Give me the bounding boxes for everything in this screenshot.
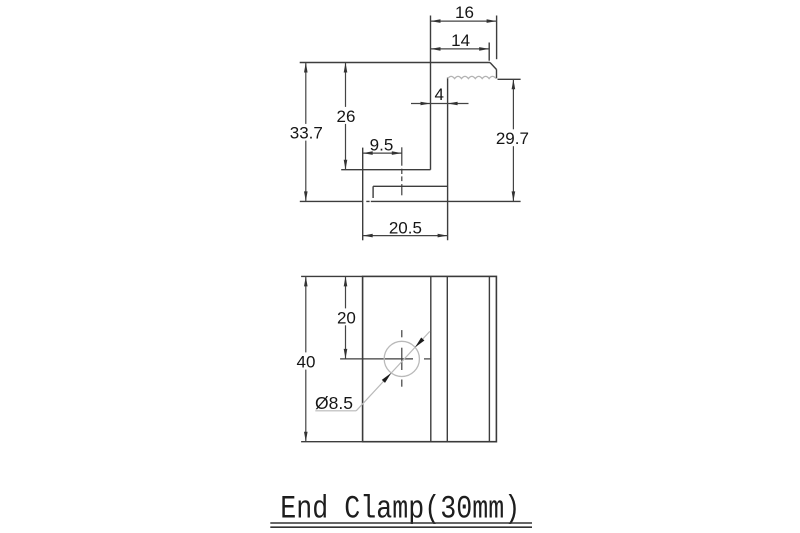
web left wall + extension up to 16/14 dims: [430, 16, 432, 170]
leader line for Ø8.5: [315, 331, 430, 410]
svg-text:26: 26: [337, 107, 356, 126]
dimension 20.5: [363, 235, 448, 237]
serrated clamping surface (wavy light line): [448, 76, 496, 78]
leader arrowhead upper-right: [415, 338, 424, 348]
hole circle Ø8.5: [384, 341, 419, 376]
svg-text:20.5: 20.5: [389, 218, 422, 237]
svg-text:40: 40: [297, 353, 316, 372]
hole centerlines (crosshair): [340, 330, 431, 387]
dimension 33.7: [305, 63, 307, 202]
bottom edge extension (40 dim): [301, 441, 363, 443]
profile bottom line (with extensions both sides): [300, 200, 521, 202]
hole centerline (dash-dot vertical): [401, 147, 403, 195]
chamfer top-right: [490, 63, 497, 70]
dimension 40: [305, 276, 307, 441]
dimension 26: [345, 63, 347, 170]
web line left: [430, 276, 432, 441]
top edge extension (40/20 dims): [301, 275, 363, 277]
white gaps in bottom line (dash-dot look): [363, 200, 366, 203]
bottom flange left edge + extensions (9.5 above / 20.5 below): [362, 148, 364, 241]
svg-text:33.7: 33.7: [290, 124, 323, 143]
extension line 16 right: [496, 16, 498, 60]
extension line 14 right: [488, 43, 490, 61]
svg-text:20: 20: [337, 308, 356, 327]
dimension 29.7: [512, 79, 514, 201]
bottom flange top surface (with left extension for 26 dim): [341, 169, 430, 171]
dimension 9.5: [363, 152, 402, 154]
svg-text:16: 16: [455, 3, 474, 22]
svg-text:29.7: 29.7: [496, 129, 529, 148]
lip left wall: [372, 186, 374, 198]
svg-text:Ø8.5: Ø8.5: [315, 393, 353, 413]
svg-text:4: 4: [434, 85, 443, 104]
web line right: [446, 276, 448, 441]
leader arrowhead lower-left: [382, 373, 391, 383]
dimension 4 (web thickness, arrows outside): [411, 103, 469, 105]
extension line 29.7 top: [498, 78, 521, 80]
double underline: [270, 522, 532, 524]
svg-text:14: 14: [451, 31, 470, 50]
dimension 20 (bottom view): [345, 276, 347, 359]
profile top surface line (with left extension): [300, 62, 490, 64]
flange right edge: [496, 69, 498, 78]
chamfer line: [488, 276, 490, 441]
svg-text:End Clamp(30mm): End Clamp(30mm): [280, 491, 520, 528]
dimension 14: [431, 48, 490, 50]
svg-text:9.5: 9.5: [370, 135, 394, 154]
dimension 16: [431, 20, 497, 22]
body rectangle: [363, 276, 497, 441]
web right wall + extension down to 20.5 dim: [447, 78, 449, 241]
lip top line: [373, 185, 448, 187]
